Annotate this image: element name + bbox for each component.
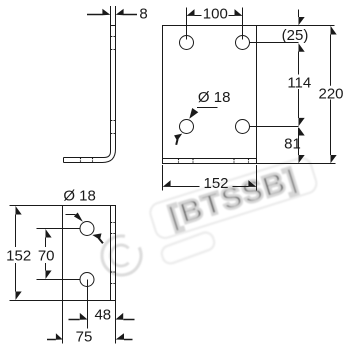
front view: hole bottom-right [236,120,250,134]
plan view: lower extension lines [63,280,116,344]
svg-text:(25): (25) [282,27,309,44]
plan view: plate outline [63,206,116,301]
svg-text:70: 70 [38,247,55,264]
plan view: hole top [80,222,94,236]
svg-text:75: 75 [76,329,93,346]
front view: hole top-left [180,36,194,50]
dimension 100: arrows [187,9,243,16]
front view: plate outline [163,26,257,164]
dimension 48: tails [69,319,135,321]
dimension 152 front: arrows [163,180,257,187]
dimension 75: tails [47,339,133,341]
dimension 70: arrows [46,229,52,279]
side view: leg end caps [64,26,116,163]
dimension 48: arrows [80,313,123,320]
dimension 70: centerline stubs [37,229,81,280]
front view diameter label leader [197,107,218,109]
svg-text:152: 152 [203,175,228,192]
dimension 114: arrows [299,118,305,126]
front view: bend line at bottom [163,158,257,160]
svg-text:8: 8 [139,5,147,22]
dimension 100: dim line segments [195,15,235,17]
svg-text:220: 220 [318,85,343,102]
dimension 8: arrows [102,9,123,15]
dimension 152 plan: extension lines [10,206,63,301]
plan view: flange bend line [110,206,112,301]
svg-text:81: 81 [284,136,301,153]
svg-text:48: 48 [94,307,111,324]
svg-text:152: 152 [6,247,31,264]
front view: hole top-right [236,36,250,50]
plan view: hole bottom [80,273,94,287]
plan view diameter label leader [66,214,76,216]
svg-text:Ø 18: Ø 18 [198,89,231,106]
dimension column (25)/114/81 line segments [298,10,300,156]
front view: top edge extension to right [257,25,335,27]
side view: hidden hole tick marks [111,37,115,134]
watermark stamp [BTSSB] [148,156,319,241]
svg-text:Ø 18: Ø 18 [63,187,96,204]
svg-text:114: 114 [287,74,311,91]
front view: hole row centerline stubs [249,43,298,127]
dimension 75: arrows [56,333,124,340]
dimension column 220 line segments [330,35,332,156]
dimension (25): arrows [299,17,305,52]
front view: bottom edge extension to right [257,163,336,165]
svg-text:100: 100 [203,5,228,22]
dimension 81: arrows [299,127,305,163]
dimension 100: extension lines [187,8,243,40]
dimension 8: tails [87,14,137,16]
front view: bottom band hole tick marks [179,159,249,163]
plan view: flange hole tick marks [111,223,115,284]
watermark copyright symbol [102,236,141,275]
dimension 152 front: dim line segments [171,186,249,188]
watermark faint tile fragment [160,230,217,265]
front view: hole bottom-left [180,120,194,134]
side view: vertical leg outline with bend [64,26,111,158]
dimension 220: arrows [331,26,337,164]
dimension 152 front: extension lines [163,165,257,191]
dimension 152 plan: arrows [16,206,22,300]
dimension 152 plan: dim line segments [15,215,17,292]
dimension 70: dim line segments [45,238,47,271]
side view: thickness extension lines [111,6,116,26]
